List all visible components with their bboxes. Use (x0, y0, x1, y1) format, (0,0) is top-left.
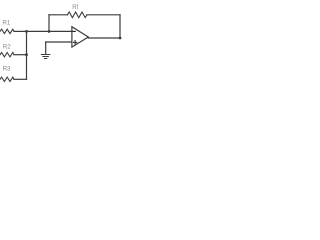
junction summing node at R1 row (25, 30, 28, 33)
wire top to Rf (49, 14, 68, 16)
resistor R2 (0, 53, 14, 57)
junction feedback tap (48, 30, 51, 33)
junction R2 tee (25, 53, 28, 56)
wire non-inverting input (46, 41, 72, 43)
ground (41, 55, 50, 59)
wire R1 to summing node (14, 30, 27, 32)
wire summing bus vertical (26, 31, 28, 79)
wire op-amp output (88, 37, 120, 39)
svg-text:R3: R3 (3, 66, 11, 73)
wire Rf to feedback corner (87, 14, 120, 16)
resistor Rf (68, 12, 88, 18)
svg-text:R1: R1 (2, 19, 10, 26)
resistor R3 (0, 77, 14, 81)
resistor R1 (0, 29, 14, 33)
op-amp U1 (72, 27, 88, 47)
op-amp inverting pin mark (72, 30, 75, 32)
wire R3 to bus (14, 78, 27, 80)
junction output node (119, 37, 122, 40)
svg-text:R2: R2 (3, 44, 11, 51)
wire to ground (45, 42, 47, 54)
wire summing node to inverting input (27, 30, 73, 32)
wire R2 to bus (14, 54, 27, 56)
wire feedback riser (48, 15, 50, 32)
svg-text:Rf: Rf (72, 5, 78, 11)
op-amp non-inverting pin mark (74, 41, 77, 45)
wire feedback drop (119, 15, 121, 38)
